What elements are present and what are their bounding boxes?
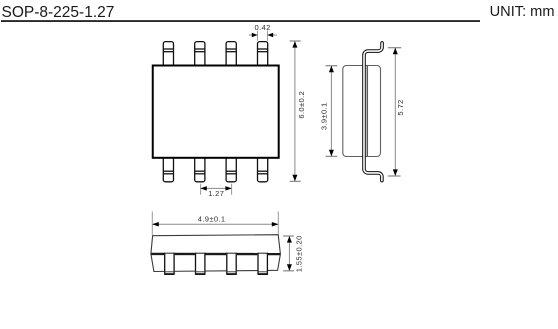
dimension 6.0±0.2 (top view overall width incl. leads) <box>290 41 301 181</box>
dimension 0.42 arrows <box>249 34 277 36</box>
svg-text:6.0±0.2: 6.0±0.2 <box>297 91 306 119</box>
dimension 4.9±0.1 extension lines <box>152 212 278 236</box>
top view package body <box>153 66 279 158</box>
svg-text:3.9±0.1: 3.9±0.1 <box>319 102 328 130</box>
top view pin 2 <box>195 42 205 67</box>
top view pin 7 <box>226 157 236 182</box>
dimension 1.27 extension lines <box>201 184 232 195</box>
svg-text:1.55±0.20: 1.55±0.20 <box>295 235 304 272</box>
svg-text:SOP-8-225-1.27: SOP-8-225-1.27 <box>2 4 115 21</box>
front view lead 3 <box>226 253 237 275</box>
svg-text:0.42: 0.42 <box>255 23 271 32</box>
dimension 1.27 line and arrows <box>201 187 231 189</box>
top view pin 5 (bottom-left lead) <box>163 157 173 182</box>
front view parting line band <box>151 253 280 256</box>
side view package body <box>343 66 381 157</box>
top view pin 6 <box>195 157 205 182</box>
svg-text:5.72: 5.72 <box>396 99 405 115</box>
dimension 4.9±0.1 line and arrows <box>153 223 278 225</box>
front view lead 1 <box>164 253 175 275</box>
svg-text:4.9±0.1: 4.9±0.1 <box>198 215 226 224</box>
dimension 5.72 (side view lead span) <box>388 48 401 176</box>
side view gull-wing lead <box>364 43 382 181</box>
top view pin 3 <box>226 42 236 67</box>
title underline rule <box>1 20 480 22</box>
front view lead 4 <box>257 253 268 275</box>
svg-text:1.27: 1.27 <box>208 189 224 198</box>
top view pin 4 <box>258 42 268 67</box>
front view body outline <box>151 235 281 272</box>
top view pin 1 (top-left lead) <box>163 42 173 67</box>
dimension 0.42 extension lines <box>258 31 268 41</box>
front view lead 2 <box>195 253 206 275</box>
dimension 1.55±0.20 (front view body height) <box>283 236 294 271</box>
top view pin 8 <box>258 157 268 182</box>
dimension 3.9±0.1 (side view body height) <box>326 66 338 157</box>
svg-text:UNIT: mm: UNIT: mm <box>490 4 555 20</box>
